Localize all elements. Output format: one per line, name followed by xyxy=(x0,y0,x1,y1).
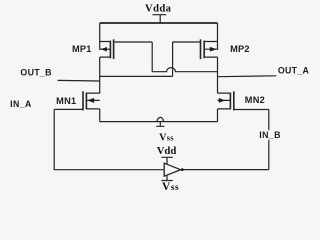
svg-text:Vss: Vss xyxy=(162,181,179,193)
svg-text:Vdd: Vdd xyxy=(157,145,177,157)
svg-text:Vdda: Vdda xyxy=(145,3,172,14)
svg-text:IN_B: IN_B xyxy=(259,130,281,140)
svg-text:MP2: MP2 xyxy=(230,44,250,54)
svg-text:MN2: MN2 xyxy=(245,95,265,105)
svg-text:MN1: MN1 xyxy=(56,96,76,106)
svg-text:Vss: Vss xyxy=(159,133,174,144)
svg-text:OUT_A: OUT_A xyxy=(278,65,310,75)
svg-text:OUT_B: OUT_B xyxy=(20,67,51,77)
svg-text:IN_A: IN_A xyxy=(10,99,32,109)
svg-text:MP1: MP1 xyxy=(72,44,92,54)
